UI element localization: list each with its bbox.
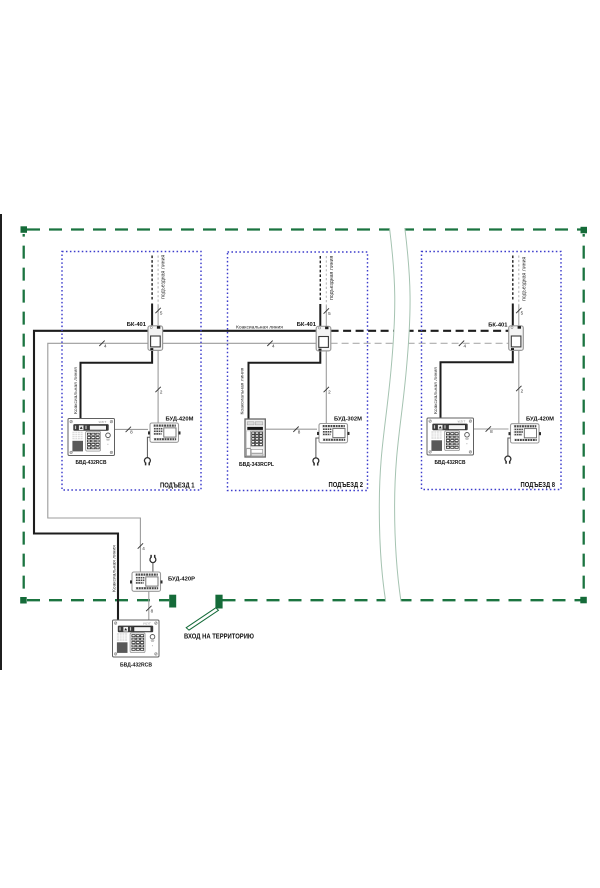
slash mark 8-wire (entrance 1): [126, 427, 131, 432]
door panel BVD-343RCPL (entrance 2): [245, 419, 265, 457]
power cord (entrance 2): [316, 438, 319, 458]
riser line gray solid (entrance 8): [518, 305, 520, 327]
svg-text:подъездная линия: подъездная линия: [521, 257, 527, 301]
door panel BVD-432RCB (entrance 1): [68, 419, 115, 456]
territory fence bottom side (left of gate): [27, 599, 169, 601]
fence corner post top-right: [581, 227, 588, 234]
svg-text:4: 4: [464, 343, 467, 348]
svg-text:подъездная линия: подъездная линия: [161, 255, 167, 299]
territory fence top side: [27, 228, 581, 230]
svg-text:БК-401: БК-401: [488, 323, 508, 329]
territory fence right side: [583, 234, 585, 597]
riser line black dashed (entrance 2): [319, 256, 321, 302]
svg-text:БУД-302М: БУД-302М: [334, 417, 362, 423]
svg-text:2: 2: [160, 390, 163, 395]
svg-text:БУД-420Р: БУД-420Р: [168, 576, 195, 582]
svg-text:2: 2: [328, 390, 331, 395]
svg-text:Коаксиальная линия: Коаксиальная линия: [111, 545, 117, 592]
slash mark 5-wire on riser (entrance 1): [155, 308, 160, 313]
entrance 8 boundary box: [422, 252, 562, 490]
svg-text:ПОДЪЕЗД 1: ПОДЪЕЗД 1: [160, 481, 195, 489]
wire BUD-420R down to gate panel: [148, 591, 150, 620]
svg-text:4: 4: [272, 343, 275, 348]
wire panel to BUD (entrance 8): [474, 428, 509, 430]
svg-text:Коаксиальная линия: Коаксиальная линия: [433, 367, 439, 414]
entrance 1 boundary box: [62, 252, 201, 491]
wire BK-401 down to BUD-302M (entrance 2): [325, 350, 327, 425]
slash mark 8-wire (gate): [146, 606, 151, 611]
slash mark 2-wire (entrance 1): [155, 387, 160, 392]
trunk pair line (gray, solid run + corner to gate reader unit): [48, 343, 317, 572]
riser line gray dashed (entrance 8): [518, 256, 520, 306]
svg-text:Коаксиальная линия: Коаксиальная линия: [73, 367, 79, 414]
svg-text:2: 2: [521, 389, 524, 394]
break curve right: [395, 228, 410, 602]
commutation block BK-401 (entrance 2): [316, 326, 331, 351]
trunk pair line dashed continuation to entrance 8: [331, 342, 510, 344]
slash mark 8-wire (entrance 8): [486, 426, 491, 431]
power cord (entrance 8): [508, 438, 511, 456]
control unit BUD-420M (entrance 1): [148, 423, 181, 442]
territory fence bottom side (right of gate): [223, 599, 581, 601]
slash mark 4-wire on trunk pair (entrance 8): [459, 341, 464, 346]
gate post right: [215, 595, 222, 609]
slash mark 8-wire (entrance 2): [293, 427, 298, 432]
door panel BVD-432RCB (entrance 8): [427, 418, 474, 455]
svg-text:8: 8: [130, 430, 133, 435]
riser line gray solid (entrance 1): [157, 305, 159, 327]
control unit BUD-302M (entrance 2): [317, 424, 350, 443]
slash mark 2-wire (entrance 8): [516, 386, 521, 391]
riser line gray solid (entrance 2): [325, 306, 327, 328]
riser line black solid into BK-401 (entrance 8): [512, 304, 514, 328]
svg-text:8: 8: [298, 429, 301, 434]
slash mark 2-wire (entrance 2): [324, 387, 329, 392]
trunk coaxial line segment between entrance 1 and 2: [162, 330, 317, 332]
svg-text:Коаксиальная линия: Коаксиальная линия: [239, 367, 245, 414]
control unit BUD-420R: [130, 572, 163, 591]
entrance 2 boundary box: [228, 252, 368, 491]
slash mark 5-wire on riser (entrance 8): [516, 308, 521, 313]
riser line black solid into BK-401 (entrance 2): [319, 304, 321, 328]
gate leaf (open): [186, 608, 218, 630]
riser line black dashed (entrance 8): [512, 256, 514, 302]
fence corner post bottom-right: [580, 597, 587, 604]
break ribbon (white mask): [379, 227, 410, 603]
svg-text:5: 5: [160, 311, 163, 316]
building wall edge line (left): [0, 214, 2, 670]
territory fence left side: [23, 234, 25, 597]
riser line black solid into BK-401 (entrance 1): [151, 304, 153, 328]
svg-text:ВХОД НА ТЕРРИТОРИЮ: ВХОД НА ТЕРРИТОРИЮ: [184, 633, 255, 641]
trunk coaxial line dashed continuation to entrance 8: [331, 330, 510, 332]
riser line gray dashed (entrance 1): [157, 256, 159, 306]
svg-text:БВД-432RCB: БВД-432RCB: [120, 663, 152, 669]
fence corner post top-left: [21, 226, 28, 233]
svg-text:БУД-420М: БУД-420М: [526, 417, 554, 423]
power plug (entrance 2): [313, 458, 319, 466]
riser line gray dashed (entrance 2): [325, 256, 327, 306]
wire panel to BUD (entrance 2): [265, 428, 317, 430]
svg-text:8: 8: [490, 429, 493, 434]
wire BK-401 down to BUD-420M (entrance 1): [157, 349, 159, 424]
svg-text:4: 4: [142, 546, 145, 551]
control unit BUD-420M (entrance 8): [509, 424, 542, 443]
fence corner post bottom-left: [20, 597, 27, 604]
svg-text:БВД-432RCB: БВД-432RCB: [76, 460, 107, 466]
wire BK-401 down to coax corner (entrance 1): [81, 349, 153, 419]
power plug above BUD-420R: [150, 555, 156, 563]
power plug (entrance 1): [144, 458, 150, 466]
wire BK-401 down to coax corner (entrance 8): [441, 349, 513, 418]
power cord BUD-420R: [152, 562, 154, 572]
svg-text:5: 5: [328, 311, 331, 316]
power plug (entrance 8): [505, 456, 511, 464]
svg-text:5: 5: [521, 311, 524, 316]
break curve left: [379, 228, 394, 602]
slash mark 4-wire on trunk pair (entrance 1): [99, 341, 104, 346]
wire BK-401 down to coax corner (entrance 2): [249, 350, 321, 420]
svg-text:БВД-432RCB: БВД-432RCB: [435, 460, 466, 466]
power cord (entrance 1): [147, 437, 150, 457]
svg-text:БК-401: БК-401: [297, 322, 317, 328]
svg-text:ПОДЪЕЗД 8: ПОДЪЕЗД 8: [521, 481, 556, 489]
trunk coaxial line (black, solid run + corner to gate panel): [34, 331, 149, 620]
svg-text:8: 8: [151, 609, 154, 614]
wire panel to BUD (entrance 1): [115, 428, 149, 430]
svg-text:БУД-420М: БУД-420М: [166, 417, 194, 423]
svg-text:4: 4: [104, 343, 107, 348]
svg-text:ПОДЪЕЗД 2: ПОДЪЕЗД 2: [329, 481, 364, 489]
riser line black dashed (entrance 1): [151, 256, 153, 302]
commutation block BK-401 (entrance 1): [148, 326, 163, 351]
svg-text:БВД-343RCPL: БВД-343RCPL: [239, 462, 275, 468]
slash mark 4-wire on trunk pair (entrance 2): [267, 341, 272, 346]
slash mark 5-wire on riser (entrance 2): [324, 308, 329, 313]
svg-text:Коаксиальная линия: Коаксиальная линия: [236, 325, 283, 331]
door panel BVD-432RCB (gate): [113, 620, 160, 657]
commutation block BK-401 (entrance 8): [509, 326, 524, 351]
wire BK-401 down to BUD-420M (entrance 8): [518, 349, 520, 424]
slash mark 4-wire on gray line to BUD-420R: [138, 543, 143, 548]
svg-text:БК-401: БК-401: [127, 322, 147, 328]
gate post left: [169, 595, 176, 608]
svg-text:подъездная линия: подъездная линия: [329, 256, 335, 300]
